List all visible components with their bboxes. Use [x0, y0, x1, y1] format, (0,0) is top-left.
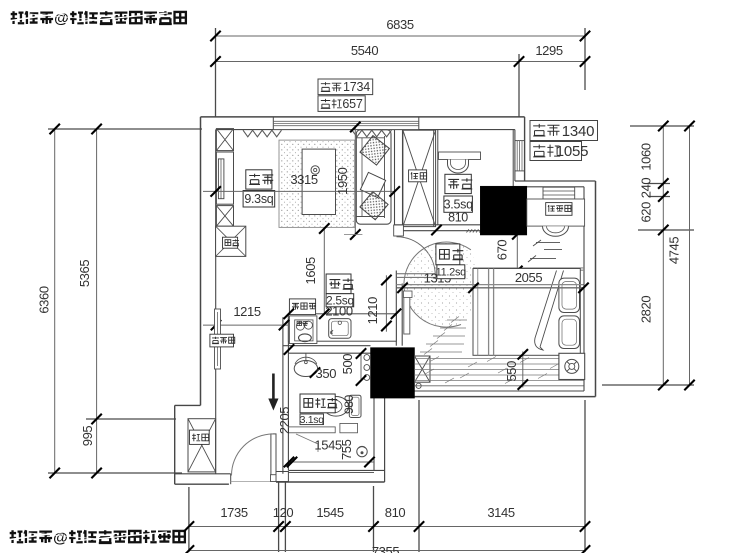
decorative painting on wall 装饰画 [215, 309, 221, 369]
bedroom wood floor hatch below bed [415, 356, 584, 384]
label dressing table 化妆桌 [546, 203, 572, 216]
svg-text:1340: 1340 [562, 123, 595, 140]
label study 书房 [445, 174, 471, 193]
svg-text:1215: 1215 [233, 304, 260, 319]
label study 3.5sq [444, 196, 473, 212]
svg-text:9.3sq: 9.3sq [244, 192, 273, 206]
svg-text:350: 350 [316, 366, 337, 381]
shaft black box 1 [480, 186, 527, 235]
wall: dressing room top [515, 180, 596, 182]
wall inner line: top-right segment [419, 129, 515, 131]
label shoe cabinet 鞋柜 [190, 430, 210, 444]
kitchen door jamb [404, 291, 413, 298]
kitchen stove [289, 316, 317, 344]
threshold hatch near study door [467, 229, 482, 232]
wall outline: left [200, 117, 202, 406]
label bedroom 11.2sq [437, 265, 465, 279]
wall: study left [437, 130, 439, 225]
svg-text:1605: 1605 [303, 257, 318, 284]
bed quilt fold lines [488, 269, 490, 356]
svg-text:3.1sq: 3.1sq [300, 414, 325, 426]
svg-text:980: 980 [342, 394, 356, 414]
label 装饰画 [210, 334, 234, 347]
shaft black box 2 [371, 348, 415, 399]
svg-text:1545: 1545 [314, 438, 341, 453]
svg-text:1210: 1210 [365, 297, 380, 324]
tv wall upper column (x-box) [216, 129, 233, 151]
study door swing arc [397, 237, 436, 276]
svg-text:3315: 3315 [290, 172, 317, 187]
shoe cabinet 鞋柜 x-box [188, 419, 216, 472]
bed pillow 1 [559, 278, 580, 312]
floor edge line [415, 385, 584, 387]
svg-text:2100: 2100 [325, 303, 352, 318]
svg-text:11.2sq: 11.2sq [436, 267, 467, 279]
svg-text:1060: 1060 [639, 143, 654, 170]
curtain zigzag right (above sofa) [352, 130, 392, 137]
sofa pillow 2 (plain) [360, 172, 385, 197]
wall outline: top [201, 116, 525, 118]
svg-text:620: 620 [639, 202, 654, 223]
bathroom shelf [288, 427, 335, 433]
svg-text:240: 240 [639, 178, 654, 199]
dim 2100 ticks [284, 309, 294, 319]
bed [473, 269, 580, 356]
label 窗高1340 box [530, 121, 598, 141]
label fridge 冰箱 [223, 237, 238, 248]
hose circles left of shaft 2 [364, 355, 370, 361]
svg-text:3145: 3145 [487, 505, 514, 520]
cup on coffee table [311, 166, 319, 174]
svg-text:2820: 2820 [639, 296, 654, 323]
dressing/bedroom divider line [473, 267, 584, 269]
bed pillow 2 [559, 316, 580, 349]
left dimension line 5365 / 995 [96, 129, 98, 473]
svg-text:755: 755 [339, 439, 354, 460]
wall outline: bedroom bottom [385, 396, 596, 398]
dim 2205 line [284, 344, 294, 354]
tv cabinet [216, 152, 233, 204]
wall outline: right [595, 181, 597, 397]
tv panel [218, 159, 224, 199]
top dimension line 6835 [216, 35, 586, 37]
shower head symbol [357, 446, 367, 456]
wardrobe 衣柜 x-box [403, 130, 436, 226]
toilet [349, 395, 361, 417]
svg-text:5540: 5540 [351, 43, 378, 58]
dressing table [527, 199, 585, 226]
sofa [356, 130, 391, 224]
wall inner line: left [215, 130, 217, 474]
dim line 1315 / 2055 [396, 284, 583, 286]
bottom dimension extension lines [189, 400, 585, 552]
wall: entry left step [175, 404, 201, 406]
label bathroom 卫生间 [300, 394, 335, 413]
svg-text:995: 995 [80, 426, 95, 447]
label kitchen 厨房 [326, 274, 351, 294]
watermark bottom-left sohu [7, 529, 185, 546]
entry door leaf [271, 434, 276, 475]
study door leaf [396, 273, 435, 275]
top dimension line 5540 / 1295 [216, 61, 586, 63]
svg-text:810: 810 [448, 210, 468, 224]
wall: bathroom bottom / entry outer [288, 469, 384, 471]
kitchen sink [329, 319, 351, 339]
svg-text:1055: 1055 [556, 143, 589, 160]
label wardrobe 衣柜 [409, 170, 427, 182]
dim 1215 line [203, 324, 288, 326]
label living room 客厅 [246, 170, 272, 189]
dim 1210 line [385, 275, 387, 331]
wall: bathroom right [384, 391, 386, 482]
wall stub right of entry door [276, 472, 288, 482]
wall inner line: top-left segment [216, 129, 274, 131]
dim 1545 line bathroom [288, 461, 374, 463]
wall: kitchen right [395, 271, 397, 346]
label living room 9.3sq [243, 191, 275, 208]
dressing room radiator/window box [543, 187, 575, 199]
bed inner left edge line [477, 269, 479, 356]
column x-box next to shaft 2 [415, 356, 431, 382]
svg-text:1545: 1545 [316, 505, 343, 520]
right dimension extension lines [602, 126, 694, 385]
left dimension line 6360 [54, 129, 56, 473]
svg-text:1734: 1734 [343, 80, 370, 94]
left dimension extension lines [48, 129, 202, 473]
svg-text:1950: 1950 [335, 167, 350, 194]
entry door threshold [231, 481, 276, 483]
study desk [439, 152, 481, 160]
sofa pillow 3 (dotted) [360, 192, 388, 220]
dim 1950 line [354, 127, 356, 235]
label bathroom 3.1sq [300, 414, 324, 425]
entry door swing arc [232, 434, 274, 476]
entry direction arrow [272, 374, 275, 401]
svg-text:5365: 5365 [77, 260, 92, 287]
svg-text:4745: 4745 [667, 237, 682, 264]
wall: bottom-left [175, 483, 229, 485]
stove scribble glyphs [297, 321, 301, 325]
dim 670 line [516, 234, 518, 271]
label induction 电磁炉 [289, 299, 315, 315]
bedroom floor hatch left of bed [420, 317, 467, 355]
coffee table [302, 149, 335, 214]
label 窗高1734 box [318, 79, 373, 95]
svg-text:550: 550 [504, 361, 519, 382]
window right-upper wall (study window) [515, 140, 525, 142]
svg-text:7355: 7355 [372, 544, 399, 553]
rug with dotted texture [279, 140, 355, 227]
dim 550 line [522, 351, 524, 387]
svg-text:670: 670 [495, 240, 510, 261]
bedside table with lamp [559, 353, 585, 379]
wall: bathroom top / kitchen bottom [283, 345, 371, 347]
bedroom door swing arc with dotted floor [404, 242, 486, 327]
kitchen door leaf [404, 295, 410, 334]
fridge [216, 226, 246, 256]
entry door jamb block [271, 475, 277, 482]
wall: study right [512, 130, 514, 187]
svg-text:6360: 6360 [37, 286, 52, 313]
svg-text:120: 120 [273, 505, 294, 520]
vanity marks [528, 240, 562, 262]
sofa pillow 1 (dotted) [360, 136, 389, 165]
kitchen counter [288, 314, 396, 341]
label bedroom 卧室 [436, 244, 460, 265]
wall: wardrobe/study bottom [395, 224, 481, 226]
dim 500 line [360, 354, 362, 381]
label 窗下1055 box [530, 142, 582, 161]
svg-text:2055: 2055 [515, 270, 542, 285]
svg-text:6835: 6835 [386, 17, 413, 32]
curtain zigzag left [243, 130, 282, 137]
dim 1605 line [323, 228, 325, 314]
study chair [448, 160, 469, 174]
study door jamb block [394, 225, 404, 236]
dim 350 [310, 367, 320, 377]
washbasin [294, 361, 317, 377]
dim 3315 line [203, 190, 395, 192]
wall outline: top-right corner going down [524, 117, 526, 181]
bottom dimension line 7355 [189, 550, 585, 552]
right dimension line 4745 [689, 126, 691, 385]
bottom dimension line 1735/120/1545/810/3145 [189, 526, 585, 528]
window top (living room): jambs and panes [272, 117, 274, 130]
svg-text:1735: 1735 [220, 505, 247, 520]
leader line [296, 434, 318, 444]
svg-text:657: 657 [342, 97, 363, 111]
svg-text:810: 810 [385, 505, 406, 520]
watermark top-left sohu [8, 10, 186, 27]
wall: between sofa and wardrobe [394, 130, 396, 231]
svg-text:1295: 1295 [535, 43, 562, 58]
label kitchen 2.5sq [326, 294, 354, 307]
dressing stool [543, 226, 569, 236]
top dimension extension lines [216, 28, 586, 117]
svg-text:2205: 2205 [277, 407, 292, 434]
label 窗下657 box [318, 96, 365, 112]
wall junction tick near wardrobe [431, 225, 441, 235]
svg-text:500: 500 [340, 354, 355, 375]
wall: entry/bathroom divider [282, 317, 284, 474]
right dimension line 1060/240/620/2820 [662, 126, 664, 385]
tv wall lower column (x-box) [216, 206, 233, 227]
